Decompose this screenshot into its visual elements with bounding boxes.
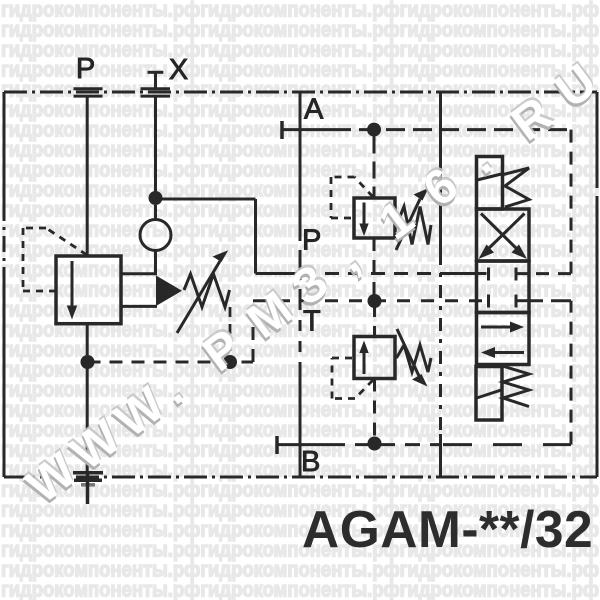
pilot line right bottom: B to valve [570, 301, 573, 445]
plug above X [148, 72, 164, 89]
spring valve2 [397, 345, 432, 372]
A line tick [280, 121, 284, 139]
spring bottom right [503, 366, 530, 407]
port stub lines right side [516, 272, 530, 275]
T line dashed [253, 299, 487, 302]
adjustment arrow valve1 [396, 199, 420, 250]
spring top right [504, 168, 530, 207]
diagonal watermark [14, 51, 600, 517]
wire X down [154, 96, 157, 198]
drain dashed line [88, 361, 254, 364]
svg-text:B: B [301, 446, 320, 478]
port P symbol [74, 89, 103, 96]
port X symbol [141, 89, 171, 96]
drain valve1 to T dashed [373, 238, 376, 298]
A line [282, 128, 332, 131]
tilted line in small box top [475, 174, 504, 181]
tilted line in small box bottom [477, 390, 503, 398]
junction node spring drain [223, 355, 237, 369]
svg-text:P: P [76, 53, 95, 85]
svg-text:X: X [169, 54, 188, 86]
drain riser dashed [252, 301, 255, 362]
poppet filled triangle [156, 276, 182, 307]
svg-text:A: A [304, 94, 324, 126]
B line [277, 443, 330, 446]
wire P down [86, 96, 89, 256]
wire P-line solid left part [256, 272, 303, 275]
dashed pilot loop valve2 [332, 358, 373, 399]
dir valve small box bottom [476, 367, 502, 421]
main valve box left panel [56, 256, 121, 324]
border bottom edge [4, 476, 597, 479]
P line dashed [302, 272, 441, 275]
spring left panel valve [184, 274, 230, 307]
divider line x=300 [299, 92, 302, 477]
dir valve small box top [477, 157, 503, 210]
divider line x=440 [439, 92, 442, 477]
dashed pilot loop valve1 [331, 177, 373, 218]
pilot line A to valve1 [373, 137, 376, 199]
junction node T [368, 294, 382, 308]
B line tick [275, 436, 279, 454]
pilot line right top: A to valve [570, 130, 573, 274]
pilot T to valve2 dashed [373, 304, 376, 337]
blocked port bars [489, 268, 517, 308]
tank symbol [73, 473, 103, 485]
dir valve box crossed arrows [477, 209, 530, 261]
spring drain riser dashed [229, 307, 232, 355]
junction node B [368, 437, 382, 451]
border top edge [4, 91, 597, 94]
spring valve1 [397, 207, 432, 245]
adjustment arrow valve2 [397, 329, 419, 376]
relief valve 2 box [354, 337, 395, 379]
arrow inside main valve box [71, 261, 74, 307]
wire from X node right [156, 198, 256, 201]
junction node drain [81, 355, 95, 369]
svg-text:AGAM-**/32: AGAM-**/32 [302, 500, 593, 558]
svg-text:гидрокомпоненты.рфгидрокомпоне: гидрокомпоненты.рфгидрокомпоненты.рфгидр… [1, 578, 599, 600]
dashed pilot loop left valve [23, 228, 87, 291]
relief valve 1 box [354, 198, 395, 238]
channel lines to poppet [121, 272, 157, 275]
arrow inside valve 1 [363, 203, 366, 227]
junction node on X line [149, 191, 163, 205]
dir valve box parallel arrows [477, 313, 530, 365]
arrow inside valve 2 [363, 350, 366, 374]
wire below main box [86, 324, 89, 472]
dir valve ports body [477, 261, 530, 313]
border left edge [3, 92, 6, 477]
wire down at x=255.5 [254, 199, 257, 274]
adjustment arrow left valve [177, 261, 220, 333]
drain valve2 to B dashed [373, 379, 376, 441]
gauge circle on X line [140, 220, 171, 251]
border right edge [596, 92, 599, 477]
junction node A [367, 123, 381, 137]
